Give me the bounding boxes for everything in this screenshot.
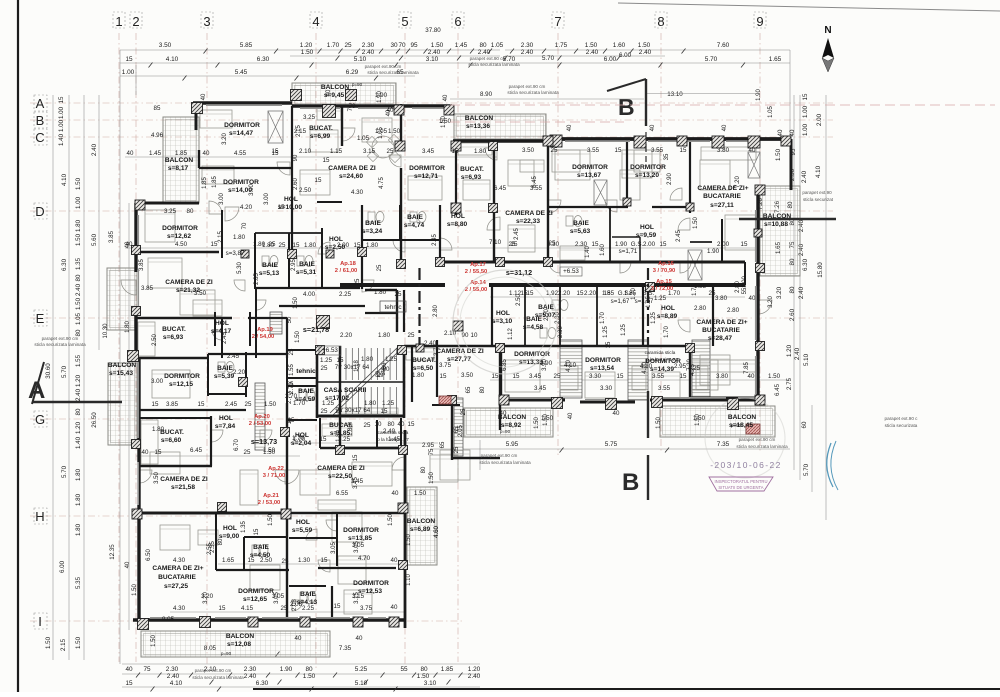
svg-text:1.55: 1.55 [289, 364, 295, 376]
svg-text:40: 40 [650, 124, 656, 131]
svg-text:7.85: 7.85 [744, 362, 750, 374]
svg-text:2.60: 2.60 [789, 308, 796, 321]
svg-text:C: C [35, 130, 44, 145]
svg-text:40: 40 [127, 150, 134, 157]
svg-text:2.40: 2.40 [91, 143, 98, 156]
svg-text:25: 25 [551, 147, 558, 154]
svg-text:1.25: 1.25 [320, 357, 333, 364]
svg-text:1.50: 1.50 [638, 42, 651, 49]
svg-text:s=3,10: s=3,10 [492, 318, 513, 325]
svg-text:10.30: 10.30 [103, 323, 109, 339]
svg-text:1.05: 1.05 [378, 127, 384, 139]
svg-text:15: 15 [152, 401, 159, 408]
svg-text:s=13,85: s=13,85 [348, 535, 372, 542]
svg-text:1.60: 1.60 [613, 42, 626, 49]
svg-text:4.10: 4.10 [642, 362, 648, 374]
svg-text:parapet ext.90 cm: parapet ext.90 cm [481, 453, 518, 458]
svg-text:2.95: 2.95 [291, 259, 297, 271]
svg-text:2.60: 2.60 [293, 178, 299, 190]
svg-text:15.80: 15.80 [817, 262, 824, 278]
svg-text:4.70: 4.70 [358, 555, 371, 562]
svg-text:3.30: 3.30 [589, 373, 602, 380]
svg-text:1.80: 1.80 [336, 430, 342, 442]
svg-text:7.20: 7.20 [735, 176, 741, 188]
svg-text:CASA SCARII: CASA SCARII [324, 387, 367, 394]
svg-text:s=13,73: s=13,73 [251, 437, 277, 446]
svg-text:5.70: 5.70 [803, 463, 810, 476]
svg-text:3.50: 3.50 [522, 147, 535, 154]
svg-text:1.50: 1.50 [75, 636, 82, 649]
svg-text:10: 10 [375, 421, 382, 428]
svg-text:1.80: 1.80 [366, 242, 379, 249]
svg-text:4.10: 4.10 [170, 680, 183, 687]
svg-text:1.80: 1.80 [152, 426, 165, 433]
svg-text:1.50: 1.50 [388, 514, 394, 526]
svg-text:15: 15 [617, 373, 624, 380]
svg-text:4.75: 4.75 [379, 177, 385, 189]
svg-text:s=27,11: s=27,11 [710, 202, 734, 209]
svg-text:1.18: 1.18 [354, 360, 360, 372]
svg-text:4.60: 4.60 [434, 526, 440, 538]
svg-text:1.80: 1.80 [75, 523, 82, 536]
svg-text:s=12,65: s=12,65 [243, 596, 267, 603]
svg-text:1.50: 1.50 [388, 128, 401, 135]
svg-text:HOL: HOL [219, 415, 233, 422]
svg-text:3.45: 3.45 [534, 385, 547, 392]
svg-text:BUCAT.: BUCAT. [460, 166, 484, 173]
svg-text:7.26: 7.26 [758, 198, 764, 210]
svg-text:BALCON: BALCON [728, 414, 756, 421]
svg-text:40: 40 [295, 635, 302, 642]
svg-text:4.00: 4.00 [303, 291, 316, 298]
svg-text:4.30: 4.30 [173, 605, 186, 612]
svg-text:4.30: 4.30 [351, 189, 364, 196]
svg-text:6.85: 6.85 [502, 359, 508, 371]
svg-text:2.00: 2.00 [717, 241, 730, 248]
svg-text:15: 15 [323, 157, 330, 164]
svg-text:15: 15 [155, 449, 162, 456]
svg-text:25: 25 [282, 558, 289, 565]
svg-text:s=4,58: s=4,58 [523, 324, 544, 331]
svg-text:1.70: 1.70 [293, 400, 306, 407]
svg-text:s=27,25: s=27,25 [164, 583, 188, 590]
svg-text:2.95: 2.95 [674, 363, 687, 370]
svg-text:3.55: 3.55 [651, 147, 664, 154]
svg-text:parapet ext.90 cm: parapet ext.90 cm [42, 336, 79, 341]
svg-text:2.45: 2.45 [227, 353, 240, 360]
svg-text:1.50: 1.50 [543, 414, 549, 426]
svg-text:3 / 70,90: 3 / 70,90 [653, 268, 676, 274]
svg-text:2.30: 2.30 [521, 42, 534, 49]
svg-text:p=90: p=90 [221, 651, 232, 656]
svg-text:1.80: 1.80 [75, 468, 82, 481]
svg-text:4.50: 4.50 [175, 241, 188, 248]
svg-text:sticla securizata: sticla securizata [885, 423, 918, 428]
svg-text:15: 15 [660, 241, 667, 248]
svg-text:parapet ext.90 cm: parapet ext.90 cm [365, 64, 402, 69]
svg-text:15: 15 [334, 603, 341, 610]
svg-text:1.80: 1.80 [304, 242, 317, 249]
svg-text:80: 80 [382, 362, 388, 369]
svg-text:75: 75 [429, 448, 435, 455]
svg-text:2.40: 2.40 [794, 347, 801, 360]
svg-text:2.80: 2.80 [694, 305, 707, 312]
svg-text:s=1,67: s=1,67 [611, 298, 630, 305]
svg-text:SITUATII DE URGENTA: SITUATII DE URGENTA [718, 485, 763, 490]
svg-text:3.55: 3.55 [658, 385, 671, 392]
svg-text:1.30: 1.30 [298, 557, 311, 564]
svg-text:2.40: 2.40 [639, 49, 652, 56]
svg-text:s=1,71: s=1,71 [619, 248, 638, 255]
svg-text:1.40: 1.40 [75, 436, 82, 449]
svg-text:parapet ext.90 cm: parapet ext.90 cm [739, 437, 776, 442]
svg-text:2.50: 2.50 [260, 557, 273, 564]
svg-text:3.05: 3.05 [354, 541, 360, 553]
svg-text:s=22,33: s=22,33 [516, 218, 540, 225]
svg-text:s=8,89: s=8,89 [657, 313, 678, 320]
svg-text:3.85: 3.85 [139, 259, 145, 271]
svg-text:1.40: 1.40 [58, 133, 65, 146]
svg-text:2.40: 2.40 [244, 673, 257, 680]
svg-text:2.90: 2.90 [667, 173, 673, 185]
svg-text:1.85: 1.85 [212, 176, 218, 188]
svg-text:7.35: 7.35 [339, 645, 352, 652]
svg-text:7tr 30x17 64: 7tr 30x17 64 [335, 364, 370, 371]
svg-text:25: 25 [321, 408, 328, 415]
svg-text:1.20: 1.20 [75, 421, 82, 434]
svg-text:s=5,63: s=5,63 [570, 228, 591, 235]
svg-text:sticla securizata laminata: sticla securizata laminata [479, 460, 531, 465]
svg-text:tehnic: tehnic [384, 304, 402, 311]
svg-text:Ap.21: Ap.21 [263, 493, 280, 499]
svg-text:40: 40 [749, 295, 756, 302]
svg-text:3.50: 3.50 [159, 42, 172, 49]
svg-text:p la h etaj+1,77: p la h etaj+1,77 [646, 357, 678, 362]
svg-text:1.50: 1.50 [132, 584, 138, 596]
svg-text:1.35: 1.35 [75, 257, 82, 270]
svg-text:5.60: 5.60 [91, 233, 98, 246]
svg-text:DORMITOR: DORMITOR [343, 527, 379, 534]
svg-text:s=6,60: s=6,60 [161, 437, 182, 444]
svg-text:B: B [36, 113, 45, 128]
svg-text:5: 5 [401, 14, 408, 29]
svg-text:65: 65 [440, 441, 446, 448]
svg-text:70: 70 [242, 222, 248, 229]
svg-text:CAMERA DE ZI+: CAMERA DE ZI+ [152, 565, 203, 572]
svg-text:3.50: 3.50 [461, 372, 474, 379]
svg-text:BAIE: BAIE [407, 214, 423, 221]
svg-text:BAIE: BAIE [573, 220, 589, 227]
svg-text:40: 40 [201, 93, 207, 100]
svg-text:26.50: 26.50 [91, 412, 98, 428]
svg-text:1.50: 1.50 [585, 42, 598, 49]
svg-text:3.85: 3.85 [166, 401, 179, 408]
svg-text:s=8,17: s=8,17 [168, 165, 189, 172]
svg-text:s=5,13: s=5,13 [259, 270, 280, 277]
svg-text:3.80: 3.80 [716, 373, 729, 380]
svg-text:1.85: 1.85 [202, 177, 208, 189]
svg-text:2 / 53,00: 2 / 53,00 [258, 500, 281, 506]
svg-text:1.80: 1.80 [364, 400, 377, 407]
svg-text:p=90: p=90 [352, 82, 363, 87]
svg-text:BALCON: BALCON [108, 362, 136, 369]
svg-text:35: 35 [664, 153, 670, 160]
svg-text:2.80: 2.80 [735, 281, 741, 293]
svg-text:5.70: 5.70 [61, 365, 68, 378]
svg-text:2.80: 2.80 [727, 307, 740, 314]
svg-text:-203/10-06-22: -203/10-06-22 [710, 460, 782, 470]
svg-text:4.10: 4.10 [566, 360, 572, 372]
svg-text:9: 9 [756, 14, 763, 29]
svg-text:1.65: 1.65 [222, 557, 235, 564]
svg-text:1.50: 1.50 [295, 331, 301, 343]
svg-text:2.20: 2.20 [233, 369, 246, 376]
svg-text:1.50: 1.50 [441, 116, 447, 128]
svg-text:CAMERA DE ZI: CAMERA DE ZI [160, 476, 208, 483]
svg-text:40: 40 [722, 124, 728, 131]
svg-text:1.50: 1.50 [75, 297, 82, 310]
svg-text:G.S.: G.S. [631, 241, 644, 248]
svg-text:70: 70 [398, 42, 406, 49]
svg-text:40: 40 [392, 490, 399, 497]
svg-text:1.25: 1.25 [654, 295, 667, 302]
svg-text:25: 25 [321, 365, 328, 372]
svg-text:p=90: p=90 [731, 423, 742, 428]
svg-text:1.00: 1.00 [58, 106, 65, 119]
svg-text:5.95: 5.95 [506, 441, 519, 448]
svg-text:s=6,93: s=6,93 [461, 174, 482, 181]
svg-text:1.90: 1.90 [615, 241, 628, 248]
svg-text:3.45: 3.45 [422, 148, 435, 155]
svg-text:BAIE: BAIE [300, 591, 316, 598]
svg-text:6.30: 6.30 [257, 56, 270, 63]
svg-text:s=4,74: s=4,74 [404, 222, 425, 229]
svg-text:DORMITOR: DORMITOR [353, 580, 389, 587]
svg-text:3.80: 3.80 [715, 295, 728, 302]
svg-text:8: 8 [657, 14, 664, 29]
svg-text:2.55: 2.55 [207, 543, 213, 555]
svg-text:6.50: 6.50 [146, 549, 152, 561]
svg-text:1.70: 1.70 [631, 288, 637, 300]
svg-text:40: 40 [326, 89, 332, 96]
svg-text:5.10: 5.10 [803, 353, 810, 366]
svg-text:s=12,15: s=12,15 [169, 381, 193, 388]
svg-text:1.80: 1.80 [75, 219, 82, 232]
svg-text:s=5,59: s=5,59 [292, 527, 313, 534]
svg-text:15: 15 [741, 241, 748, 248]
svg-text:DORMITOR: DORMITOR [164, 373, 200, 380]
svg-text:1.70: 1.70 [292, 435, 305, 442]
svg-text:parapet ext.90 c: parapet ext.90 c [885, 416, 919, 421]
svg-text:1.70: 1.70 [668, 290, 681, 297]
svg-text:2.20: 2.20 [584, 290, 597, 297]
svg-text:s=5,39: s=5,39 [214, 373, 235, 380]
svg-text:2 / 61,00: 2 / 61,00 [335, 268, 358, 274]
svg-text:95: 95 [410, 42, 418, 49]
svg-text:1.00: 1.00 [742, 276, 748, 288]
svg-text:BAIE: BAIE [262, 262, 278, 269]
svg-text:2.30: 2.30 [558, 326, 564, 338]
svg-text:2.40: 2.40 [428, 49, 441, 56]
svg-text:85: 85 [154, 105, 161, 112]
svg-text:s=5,31: s=5,31 [296, 269, 317, 276]
svg-text:s=21,78: s=21,78 [303, 325, 329, 334]
svg-text:1: 1 [115, 14, 122, 29]
svg-text:DORMITOR: DORMITOR [572, 164, 608, 171]
svg-text:15: 15 [198, 401, 205, 408]
svg-text:25: 25 [408, 332, 415, 339]
svg-text:Ap.15: Ap.15 [656, 279, 673, 285]
svg-text:caramida sticla: caramida sticla [378, 430, 409, 435]
svg-text:G: G [35, 412, 45, 427]
svg-text:2 / 53,00: 2 / 53,00 [249, 421, 272, 427]
svg-text:25: 25 [454, 446, 460, 453]
svg-text:parapet ext.90 cm: parapet ext.90 cm [509, 84, 546, 89]
svg-text:BAIE: BAIE [365, 220, 381, 227]
svg-text:1.20: 1.20 [75, 374, 82, 387]
svg-text:HOL: HOL [451, 213, 465, 220]
svg-text:3.20: 3.20 [222, 133, 228, 145]
svg-text:1.85: 1.85 [175, 150, 188, 157]
svg-text:1.20: 1.20 [300, 42, 313, 49]
svg-text:25: 25 [364, 422, 371, 429]
svg-text:40: 40 [567, 124, 573, 131]
svg-text:5.85: 5.85 [240, 42, 253, 49]
svg-text:5.30: 5.30 [237, 262, 243, 274]
svg-text:2.15: 2.15 [296, 125, 302, 137]
svg-text:40: 40 [391, 557, 398, 564]
svg-text:3.50: 3.50 [194, 290, 207, 297]
svg-text:8.05: 8.05 [162, 616, 175, 623]
svg-text:6.29: 6.29 [346, 69, 359, 76]
svg-text:15: 15 [320, 436, 327, 443]
svg-text:3.45: 3.45 [529, 373, 542, 380]
svg-text:2.10: 2.10 [299, 148, 312, 155]
svg-text:1.80: 1.80 [412, 372, 425, 379]
svg-text:s=9,59: s=9,59 [636, 232, 657, 239]
svg-text:1.80: 1.80 [125, 321, 131, 333]
svg-text:1.50: 1.50 [268, 514, 274, 526]
svg-text:HOL: HOL [661, 305, 675, 312]
svg-text:15: 15 [527, 290, 534, 297]
svg-text:2.15: 2.15 [60, 638, 67, 651]
svg-text:1.50: 1.50 [429, 472, 435, 484]
svg-text:40: 40 [568, 412, 574, 419]
svg-text:15: 15 [577, 290, 584, 297]
svg-text:3.00: 3.00 [249, 184, 255, 196]
svg-text:1.40: 1.40 [585, 246, 591, 258]
svg-text:sticla securizata laminata: sticla securizata laminata [736, 444, 788, 449]
svg-text:DORMITOR: DORMITOR [585, 357, 621, 364]
svg-text:10: 10 [471, 332, 478, 339]
svg-text:2: 2 [132, 14, 139, 29]
svg-text:1.90: 1.90 [756, 89, 762, 101]
svg-text:1.00: 1.00 [122, 69, 135, 76]
svg-text:2.80: 2.80 [433, 305, 439, 317]
svg-text:3.25: 3.25 [164, 208, 177, 215]
svg-text:1.05: 1.05 [357, 135, 370, 142]
svg-text:3.10: 3.10 [424, 680, 437, 687]
svg-text:1.45: 1.45 [149, 150, 162, 157]
svg-text:15: 15 [337, 357, 344, 364]
svg-text:15: 15 [513, 373, 520, 380]
svg-text:40: 40 [203, 150, 210, 157]
svg-text:s=13,67: s=13,67 [577, 172, 601, 179]
svg-text:2.08: 2.08 [292, 599, 298, 611]
svg-text:s=13,36: s=13,36 [466, 123, 490, 130]
svg-text:80: 80 [420, 666, 428, 673]
svg-text:1.00: 1.00 [58, 119, 65, 132]
svg-text:1.50: 1.50 [301, 49, 314, 56]
svg-text:80: 80 [218, 538, 224, 545]
svg-text:2.20: 2.20 [558, 290, 571, 297]
svg-text:5.75: 5.75 [605, 441, 618, 448]
svg-text:CAMERA DE ZI: CAMERA DE ZI [165, 279, 213, 286]
svg-text:90: 90 [293, 154, 299, 161]
svg-text:parapet ext.90 cm: parapet ext.90 cm [195, 668, 232, 673]
svg-text:1.50: 1.50 [406, 534, 412, 546]
svg-text:1.35: 1.35 [241, 521, 247, 533]
svg-text:5.10: 5.10 [354, 56, 367, 63]
svg-text:1.50: 1.50 [775, 148, 782, 161]
svg-text:40: 40 [386, 109, 392, 116]
svg-text:s=6,50: s=6,50 [413, 365, 434, 372]
svg-text:2.30: 2.30 [166, 666, 179, 673]
svg-text:2.30: 2.30 [362, 42, 375, 49]
svg-text:6.45: 6.45 [190, 447, 203, 454]
svg-text:HOL: HOL [223, 525, 237, 532]
svg-text:60: 60 [801, 421, 808, 428]
svg-text:2.00: 2.00 [337, 242, 350, 249]
svg-text:s=13,20: s=13,20 [635, 172, 659, 179]
svg-text:1.50: 1.50 [693, 217, 699, 229]
svg-text:40: 40 [391, 604, 398, 611]
svg-text:5.70: 5.70 [61, 465, 68, 478]
svg-text:1.75: 1.75 [555, 42, 568, 49]
svg-text:5.25: 5.25 [355, 666, 368, 673]
svg-text:1.00: 1.00 [802, 123, 809, 136]
svg-text:8.90: 8.90 [480, 91, 493, 98]
svg-text:80: 80 [75, 274, 82, 281]
svg-text:7.10: 7.10 [489, 239, 502, 246]
svg-text:15: 15 [680, 373, 687, 380]
svg-text:15: 15 [248, 557, 255, 564]
svg-text:1.80: 1.80 [233, 234, 246, 241]
svg-text:1.80: 1.80 [348, 424, 354, 436]
svg-text:4.15: 4.15 [241, 605, 254, 612]
svg-text:25: 25 [355, 278, 361, 285]
svg-text:s=21,58: s=21,58 [171, 484, 195, 491]
svg-text:B: B [622, 469, 639, 496]
svg-text:HOL: HOL [215, 320, 229, 327]
svg-text:1.20: 1.20 [786, 344, 793, 357]
svg-text:HOL: HOL [296, 519, 310, 526]
svg-text:s=28,47: s=28,47 [708, 335, 732, 342]
svg-text:parapet ext.90 cm: parapet ext.90 cm [470, 56, 507, 61]
svg-text:1.50: 1.50 [431, 42, 444, 49]
svg-text:15: 15 [440, 373, 447, 380]
svg-text:2 / 54,00: 2 / 54,00 [252, 334, 275, 340]
svg-text:1.25: 1.25 [382, 400, 395, 407]
svg-text:3.55: 3.55 [652, 373, 665, 380]
svg-text:40: 40 [356, 635, 363, 642]
svg-text:1.80: 1.80 [474, 148, 487, 155]
svg-text:7.60: 7.60 [717, 42, 730, 49]
svg-text:1.90: 1.90 [707, 248, 720, 255]
svg-text:15: 15 [58, 96, 65, 103]
svg-text:5.70: 5.70 [542, 55, 555, 62]
svg-text:1.50: 1.50 [417, 673, 430, 680]
